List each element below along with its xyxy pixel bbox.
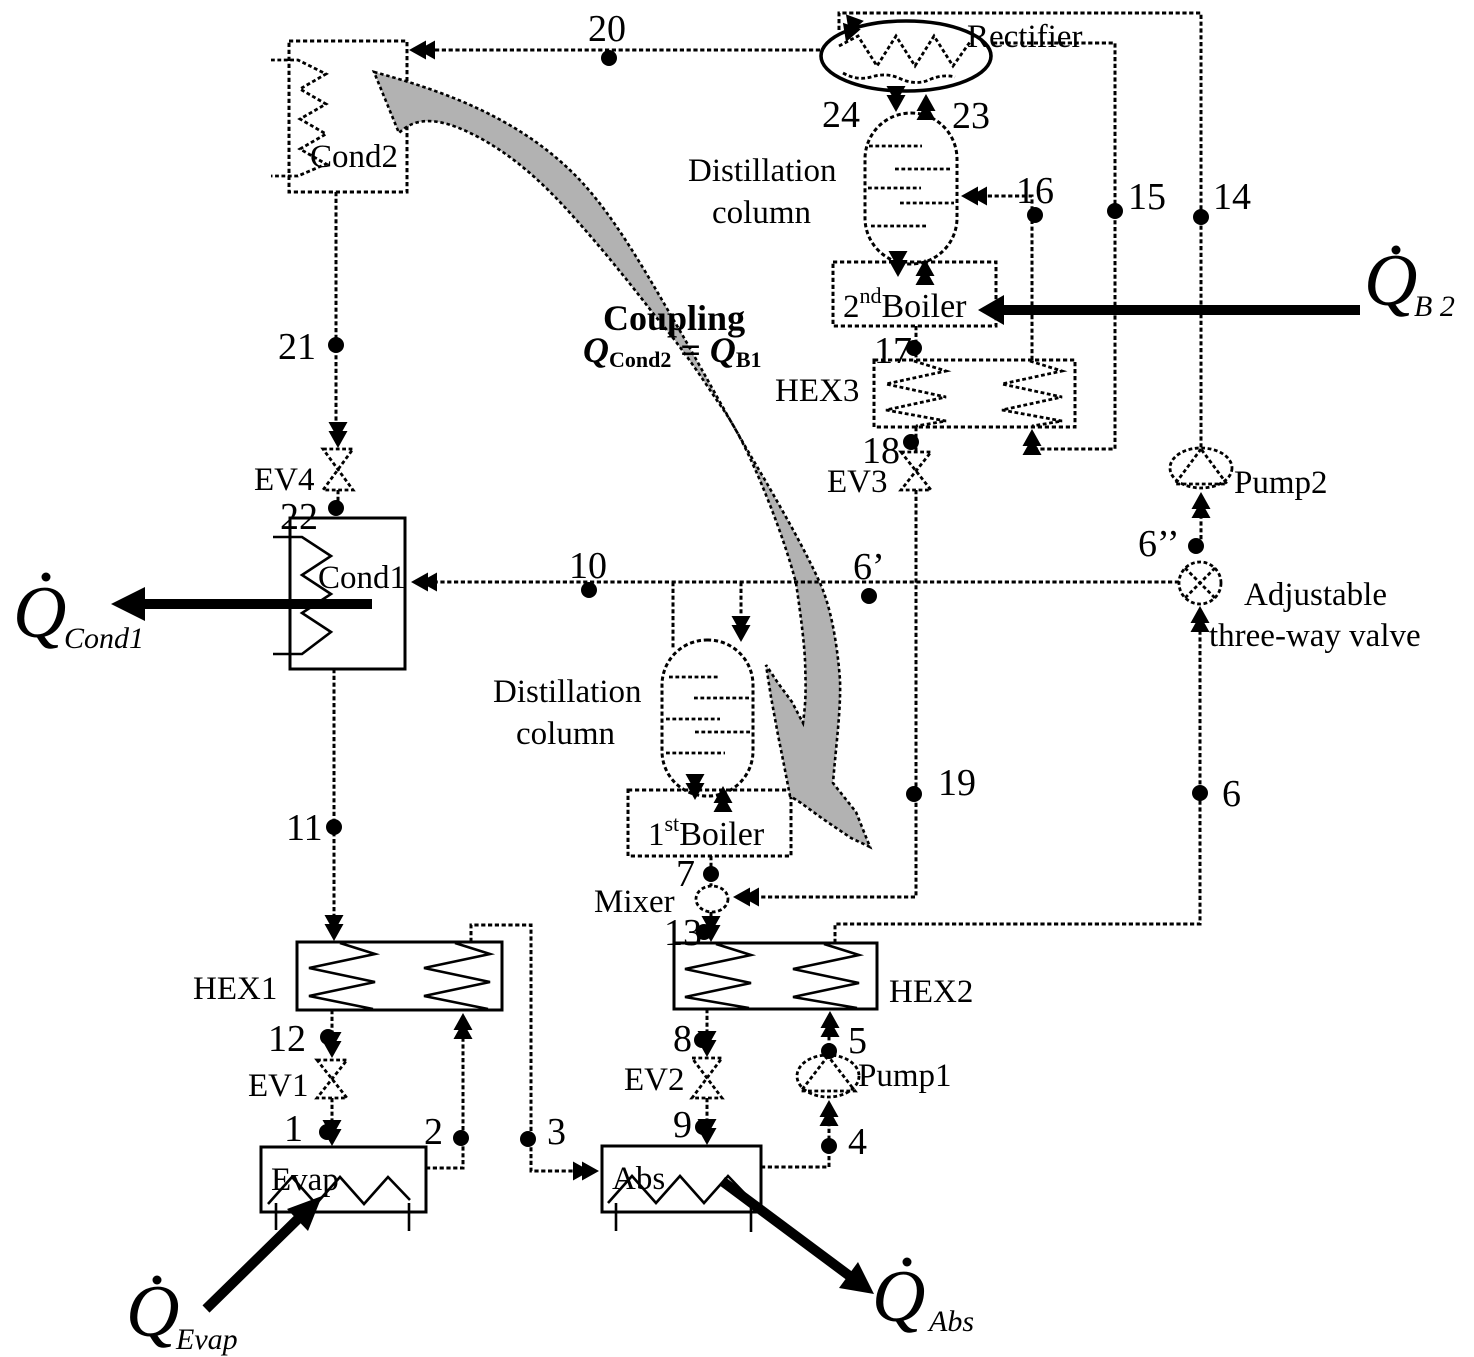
condenser Cond2 box (289, 41, 407, 192)
node 12 (320, 1029, 336, 1045)
HEX3 right coil (1002, 361, 1062, 426)
wire 2 Evap to HEX1 (426, 1024, 463, 1168)
pump Pump1 (797, 1055, 859, 1097)
tray 5 (871, 225, 928, 228)
wire 16 HEX3 to column (972, 196, 1032, 360)
node 8 (694, 1032, 710, 1048)
svg-text:Mixer: Mixer (594, 884, 675, 920)
svg-text:Rectifier: Rectifier (967, 19, 1082, 55)
svg-text:HEX3: HEX3 (775, 373, 859, 409)
distillation column (middle) vessel (662, 640, 753, 796)
node 2 (453, 1130, 469, 1146)
svg-text:1stBoiler: 1stBoiler (648, 811, 765, 853)
Abs tick left (615, 1203, 618, 1231)
svg-text:12: 12 (268, 1018, 306, 1060)
QAbs label (872, 1256, 974, 1338)
arrow into HEX3 right coil (1023, 429, 1042, 455)
QEvap label (126, 1271, 238, 1356)
wire 8 HEX2 to EV2 (706, 1009, 709, 1047)
svg-text:24: 24 (822, 94, 860, 136)
node 21 (328, 337, 344, 353)
arrow into EV1 (323, 1032, 342, 1058)
wire reflux into column top (740, 582, 743, 632)
pump Pump2 (1170, 448, 1232, 488)
svg-text:14: 14 (1213, 176, 1251, 218)
absorber Abs box (602, 1146, 761, 1212)
arrow into three-way valve (1191, 606, 1210, 632)
arrow into Abs top (698, 1119, 717, 1145)
wire 6 HEX2 to three-way valve (835, 614, 1200, 943)
arrow 23 up into rectifier (917, 94, 936, 120)
svg-text:Distillation: Distillation (688, 153, 837, 189)
wire 21 Cond2 to EV4 (335, 192, 338, 438)
wire 5 Pump1 to HEX2 (828, 1022, 831, 1054)
node 19 (906, 786, 922, 802)
wire 14 top run (839, 13, 1201, 448)
svg-text:HEX1: HEX1 (193, 971, 277, 1007)
svg-text:Pump1: Pump1 (858, 1058, 952, 1094)
wire column-rectifier right (23) (925, 104, 928, 112)
svg-text:6’: 6’ (853, 546, 885, 588)
HEX1 right coil (424, 943, 490, 1009)
arrow into HEX1 (325, 915, 344, 941)
tray 5 (666, 752, 725, 755)
svg-text:8: 8 (673, 1018, 692, 1060)
node 6'' (1188, 538, 1204, 554)
arrow into EV2 (698, 1031, 717, 1057)
node 4 (821, 1138, 837, 1154)
HEX3 left coil (886, 361, 946, 426)
wire 15 rectifier to HEX3 (993, 43, 1115, 449)
arrow column bottom into boiler B2 (889, 251, 908, 277)
node 15 (1107, 203, 1123, 219)
wire 17 boiler B2 to HEX3 (915, 326, 918, 360)
svg-text:Evap: Evap (175, 1323, 238, 1356)
condenser Cond1 box (290, 518, 405, 669)
QCond1 label (13, 572, 144, 655)
svg-text:1: 1 (284, 1108, 303, 1150)
svg-text:2ndBoiler: 2ndBoiler (843, 283, 967, 325)
rectifier liquid level (843, 73, 955, 83)
tray 2 (694, 697, 750, 700)
svg-text:Pump2: Pump2 (1234, 465, 1328, 501)
svg-text:column: column (712, 195, 811, 231)
heat exchanger HEX2 box (674, 943, 877, 1009)
svg-text:Cond1: Cond1 (64, 622, 144, 655)
node 16 (1027, 207, 1043, 223)
svg-text:13: 13 (664, 912, 702, 954)
svg-text:2: 2 (424, 1111, 443, 1153)
svg-text:HEX2: HEX2 (889, 974, 973, 1010)
wire 3 HEX1 to Abs (471, 925, 590, 1171)
heat arrow QEvap (206, 1215, 302, 1309)
arrow column bottom into boiler B1 (686, 774, 705, 800)
node 13 (696, 924, 712, 940)
svg-text:16: 16 (1016, 170, 1054, 212)
distillation column (top) vessel (865, 113, 957, 264)
wire 9 EV2 to Abs (706, 1098, 709, 1135)
tray 1 (669, 676, 720, 679)
wire 7 boiler B1 to mixer (710, 856, 713, 886)
heat arrow QB2 (1000, 305, 1360, 315)
arrow into Pump2 (1192, 492, 1211, 518)
svg-text:6: 6 (1222, 773, 1241, 815)
arrow up into middle column bottom (714, 786, 733, 812)
expansion valve EV1 (317, 1060, 347, 1098)
svg-text:EV4: EV4 (254, 462, 315, 498)
Cond2 coil (271, 60, 326, 176)
node 22 (328, 500, 344, 516)
mixer M (696, 886, 728, 912)
svg-text:Abs: Abs (927, 1305, 974, 1338)
tray 1 (869, 145, 922, 148)
wire EV3 to mixer (19) (746, 490, 916, 897)
arrow into Pump1 (820, 1100, 839, 1126)
svg-text:5: 5 (848, 1020, 867, 1062)
expansion valve EV2 (692, 1058, 722, 1098)
svg-text:19: 19 (938, 762, 976, 804)
node 6' (861, 588, 877, 604)
node 9 (695, 1119, 711, 1135)
tray 4 (900, 202, 954, 205)
svg-text:15: 15 (1128, 176, 1166, 218)
Cond1 coil (273, 537, 331, 654)
Abs coil (608, 1176, 750, 1203)
rectifier coil (839, 36, 970, 66)
QB2 label (1364, 240, 1455, 323)
svg-text:9: 9 (673, 1104, 692, 1146)
node 3 (520, 1131, 536, 1147)
svg-text:23: 23 (952, 95, 990, 137)
svg-text:Q: Q (872, 1256, 925, 1338)
arrow into column top (732, 616, 751, 642)
node 14 (1193, 209, 1209, 225)
svg-text:Q: Q (1364, 240, 1417, 322)
heat arrow QCond1 (140, 599, 372, 609)
svg-text:17: 17 (874, 330, 912, 372)
arrow into rectifier (837, 14, 864, 45)
heat exchanger HEX1 box (297, 942, 502, 1010)
HEX1 left coil (309, 943, 375, 1009)
boiler B2 box (833, 262, 996, 326)
wire rectifier-column left (24) (895, 92, 898, 102)
wire 22 EV4 to Cond1 (337, 490, 340, 518)
svg-text:Q: Q (13, 572, 66, 654)
node 1 (319, 1124, 335, 1140)
wire pump2 riser (1200, 502, 1203, 546)
arrow into HEX2 right coil (821, 1011, 840, 1037)
svg-text:10: 10 (569, 545, 607, 587)
node 7 (703, 866, 719, 882)
wire 6' three-way valve to Cond1 (420, 581, 1179, 584)
arrow into column (961, 187, 987, 206)
node 5 (821, 1043, 837, 1059)
tray 4 (695, 731, 751, 734)
arrow 24 down into column (887, 86, 906, 112)
svg-text:Cond2: Cond2 (310, 139, 398, 175)
node 17 (906, 340, 922, 356)
svg-text:EV1: EV1 (248, 1068, 309, 1104)
boiler B1 box (628, 790, 791, 856)
svg-text:B 2: B 2 (1414, 290, 1455, 323)
svg-text:18: 18 (862, 430, 900, 472)
HEX2 right coil (793, 944, 859, 1008)
svg-text:Evap: Evap (271, 1162, 339, 1198)
svg-text:20: 20 (588, 8, 626, 50)
arrow into Cond2 (409, 41, 435, 60)
Evap tick left (275, 1203, 278, 1230)
arrow into Cond1 (411, 573, 437, 592)
expansion valve EV3 (901, 452, 931, 490)
svg-text:7: 7 (676, 853, 695, 895)
evaporator Evap box (261, 1147, 426, 1212)
svg-text:21: 21 (278, 326, 316, 368)
svg-text:11: 11 (286, 807, 323, 849)
svg-text:Cond1: Cond1 (318, 560, 406, 596)
svg-text:Distillation: Distillation (493, 674, 642, 710)
wire 12 HEX1 to EV1 (331, 1010, 334, 1048)
wire 1 EV1 to Evap (331, 1098, 334, 1136)
svg-text:3: 3 (547, 1111, 566, 1153)
expansion valve EV4 (323, 449, 353, 490)
Abs tick right (750, 1203, 753, 1232)
svg-text:Abs: Abs (612, 1161, 665, 1197)
arrow into Evap (323, 1120, 342, 1146)
svg-text:6’’: 6’’ (1138, 523, 1180, 565)
svg-text:22: 22 (280, 496, 318, 538)
svg-text:EV2: EV2 (624, 1062, 685, 1098)
wire 11 Cond1 to HEX1 (333, 669, 336, 932)
three-way valve V3W (1179, 562, 1221, 604)
wire 13 mixer to HEX2 (710, 912, 713, 934)
node 20 (601, 50, 617, 66)
arrow into EV4 (329, 422, 348, 448)
wire 20 rectifier to Cond2 (418, 49, 820, 52)
arrow into Abs (573, 1162, 599, 1181)
arrow up into column bottom (916, 259, 935, 285)
wire column top left riser (672, 582, 675, 650)
tray 3 (666, 718, 720, 721)
tray 2 (895, 168, 951, 171)
wire 18 HEX3 to EV3 (915, 427, 918, 452)
svg-text:three-way valve: three-way valve (1209, 618, 1421, 654)
heat exchanger HEX3 box (874, 360, 1075, 427)
wire 4 Abs to Pump1 (761, 1110, 829, 1167)
node 6 (1192, 785, 1208, 801)
coupling arrow (gray swoosh) (374, 72, 870, 847)
heat arrow QAbs (722, 1181, 851, 1277)
node 10 (581, 582, 597, 598)
svg-text:Adjustable: Adjustable (1244, 577, 1387, 613)
node 18 (903, 434, 919, 450)
Evap tick right (408, 1203, 411, 1231)
svg-text:4: 4 (848, 1121, 867, 1163)
arrow into mixer (733, 888, 759, 907)
node 11 (326, 819, 342, 835)
HEX2 left coil (685, 944, 751, 1008)
svg-text:column: column (516, 716, 615, 752)
arrow into HEX2 (702, 916, 721, 942)
tray 3 (868, 187, 921, 190)
svg-text:Q: Q (126, 1271, 179, 1353)
rectifier U-rect ellipse (821, 21, 991, 91)
arrow into HEX1 right coil (454, 1013, 473, 1039)
Evap coil (268, 1177, 410, 1204)
